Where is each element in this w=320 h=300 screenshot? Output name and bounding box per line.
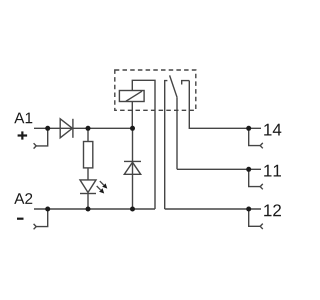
relay outline (dashed) <box>115 70 196 110</box>
LED emission arrows <box>97 181 108 193</box>
node coil junction top <box>130 126 135 131</box>
node A2 <box>45 207 50 212</box>
node terminal 12 <box>246 207 251 212</box>
wire to terminal 11 <box>177 168 261 170</box>
label 12 <box>264 204 281 216</box>
terminal clamp 14 <box>249 128 263 148</box>
coil top wire to A2 <box>132 80 155 209</box>
polarity minus <box>17 218 24 220</box>
polarity plus <box>18 131 28 139</box>
terminal clamp A1 <box>34 128 48 148</box>
terminal clamp 11 <box>249 169 263 189</box>
diode D1 (series) <box>60 119 73 138</box>
terminal clamp 12 <box>249 209 263 229</box>
coil bottom pin wire <box>131 102 133 129</box>
node A1 <box>45 126 50 131</box>
relay coil <box>119 91 144 102</box>
label 14 <box>264 124 281 136</box>
LED <box>80 180 96 209</box>
node LED bottom <box>86 207 91 212</box>
label A1 <box>14 113 32 124</box>
terminal clamp A2 <box>34 209 48 229</box>
wire to terminal 14 <box>189 81 261 129</box>
wire to terminal 12 <box>165 208 261 210</box>
label A2 <box>14 193 32 204</box>
wire A2 horizontal <box>34 208 155 210</box>
label 11 <box>264 165 281 177</box>
node terminal 11 <box>246 167 251 172</box>
node after diode D1 <box>86 126 91 131</box>
contact NO fixed (to 14) <box>182 81 190 85</box>
contact blade <box>170 75 177 97</box>
node diode bottom <box>130 207 135 212</box>
contact NC fixed (to 12) <box>165 81 168 209</box>
contact pole wire (to 11) <box>176 97 178 169</box>
node terminal 14 <box>246 126 251 131</box>
wire A1 horizontal <box>34 127 133 129</box>
freewheeling diode branch <box>124 128 141 209</box>
resistor <box>84 128 93 180</box>
